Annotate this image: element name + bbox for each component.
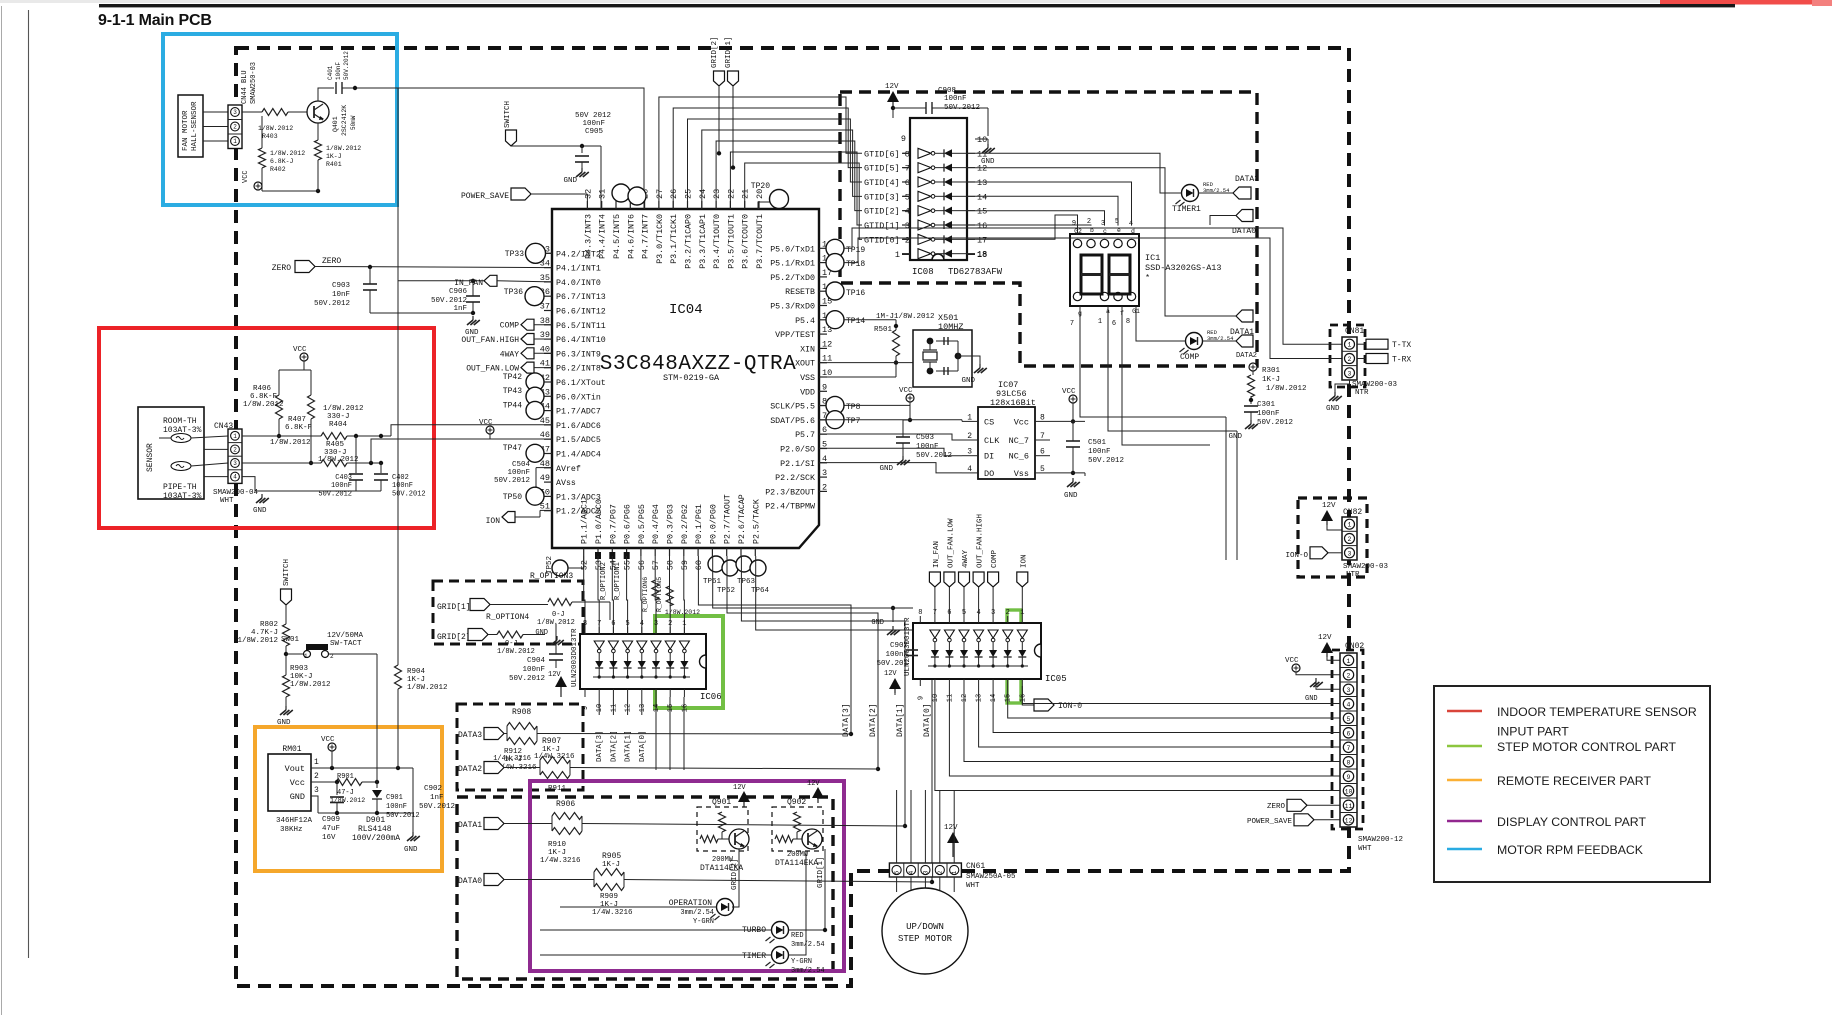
- svg-text:59: 59: [680, 560, 690, 570]
- svg-text:1K-J: 1K-J: [602, 861, 620, 869]
- svg-text:2: 2: [822, 482, 827, 492]
- svg-text:C402: C402: [392, 474, 409, 482]
- svg-text:50V 2012: 50V 2012: [575, 112, 611, 120]
- svg-text:P2.5/TACK: P2.5/TACK: [751, 499, 761, 544]
- svg-text:2SC2412K: 2SC2412K: [341, 105, 348, 136]
- svg-text:VCC: VCC: [1062, 388, 1076, 396]
- svg-text:1K-J: 1K-J: [1262, 376, 1280, 384]
- svg-text:GND: GND: [277, 719, 291, 727]
- svg-text:C902: C902: [424, 785, 442, 793]
- svg-text:DO: DO: [984, 469, 994, 479]
- svg-text:GND: GND: [563, 177, 577, 185]
- svg-text:3: 3: [822, 468, 827, 478]
- svg-text:P3.5/T1OUT1: P3.5/T1OUT1: [726, 214, 736, 269]
- svg-text:P6.4/INT10: P6.4/INT10: [556, 335, 606, 345]
- svg-text:TP47: TP47: [503, 444, 522, 453]
- svg-text:P4.7/INT7: P4.7/INT7: [641, 214, 651, 259]
- svg-text:4: 4: [1347, 701, 1351, 708]
- svg-text:VCC: VCC: [899, 387, 913, 395]
- svg-text:TP50: TP50: [503, 493, 522, 502]
- svg-text:50V.2012: 50V.2012: [1088, 457, 1124, 465]
- svg-text:R_OPTION5: R_OPTION5: [656, 577, 663, 612]
- svg-text:15: 15: [1005, 694, 1013, 702]
- svg-text:DATA[2]: DATA[2]: [610, 730, 618, 762]
- svg-text:23: 23: [712, 189, 722, 199]
- svg-text:13: 13: [639, 704, 647, 712]
- svg-text:P4.5/INT5: P4.5/INT5: [612, 214, 622, 259]
- svg-text:C501: C501: [1088, 439, 1107, 447]
- svg-text:TP19: TP19: [846, 246, 865, 255]
- svg-text:C403: C403: [335, 474, 352, 482]
- svg-text:R904: R904: [407, 668, 426, 676]
- svg-text:128x16Bit: 128x16Bit: [990, 398, 1036, 408]
- svg-text:1nF: 1nF: [453, 305, 467, 313]
- svg-text:25: 25: [684, 189, 694, 199]
- svg-text:CN44 BLU: CN44 BLU: [241, 70, 249, 104]
- svg-text:NC_6: NC_6: [1009, 452, 1029, 462]
- svg-text:12: 12: [961, 694, 969, 702]
- svg-text:TP44: TP44: [503, 401, 522, 410]
- svg-text:2: 2: [668, 620, 672, 628]
- svg-text:C909: C909: [322, 816, 340, 824]
- svg-text:9: 9: [917, 696, 925, 700]
- svg-text:16: 16: [1019, 694, 1027, 702]
- svg-text:11: 11: [946, 694, 954, 702]
- svg-text:IC04: IC04: [669, 302, 703, 318]
- svg-text:3mm/2.54: 3mm/2.54: [791, 941, 825, 949]
- svg-text:4: 4: [233, 474, 237, 481]
- svg-text:50V.2012: 50V.2012: [318, 491, 352, 499]
- svg-text:P2.3/BZOUT: P2.3/BZOUT: [765, 487, 815, 497]
- svg-text:100nF: 100nF: [1088, 448, 1111, 456]
- svg-text:3: 3: [314, 786, 319, 795]
- svg-text:P5.4: P5.4: [795, 317, 815, 326]
- svg-text:1: 1: [1348, 342, 1352, 349]
- svg-text:1/8W.2012: 1/8W.2012: [323, 405, 364, 413]
- svg-text:103AT-3%: 103AT-3%: [163, 492, 202, 501]
- svg-text:1: 1: [304, 653, 308, 660]
- svg-text:GND: GND: [253, 507, 267, 515]
- svg-text:R911: R911: [548, 785, 567, 793]
- svg-text:1: 1: [1347, 658, 1351, 665]
- svg-text:OUT_FAN.HIGH: OUT_FAN.HIGH: [977, 514, 985, 568]
- svg-text:R403: R403: [262, 133, 278, 140]
- svg-text:13: 13: [977, 178, 987, 188]
- svg-text:P0.0/PG0: P0.0/PG0: [708, 504, 718, 544]
- svg-text:GND: GND: [1305, 695, 1318, 703]
- svg-text:P4.3/INT3: P4.3/INT3: [583, 214, 593, 259]
- svg-text:1: 1: [895, 250, 900, 260]
- svg-text:AVss: AVss: [556, 479, 576, 488]
- svg-text:DISPLAY CONTROL PART: DISPLAY CONTROL PART: [1497, 815, 1646, 829]
- svg-text:24: 24: [698, 189, 708, 199]
- svg-text:1/8W.2012: 1/8W.2012: [1266, 385, 1307, 393]
- svg-text:IN_FAN: IN_FAN: [933, 541, 941, 568]
- svg-text:6.8K-F: 6.8K-F: [285, 424, 312, 432]
- svg-text:1/8W.2012: 1/8W.2012: [243, 401, 284, 409]
- svg-text:10: 10: [596, 704, 604, 712]
- svg-text:GND: GND: [961, 377, 975, 385]
- svg-text:C503: C503: [916, 434, 935, 442]
- svg-text:7: 7: [1070, 320, 1074, 328]
- svg-text:GND: GND: [1064, 492, 1078, 500]
- svg-text:52: 52: [580, 560, 590, 570]
- svg-text:GRID[2]: GRID[2]: [731, 858, 739, 890]
- svg-text:15: 15: [977, 207, 987, 217]
- svg-text:5: 5: [625, 620, 629, 628]
- svg-text:P0.3/PG3: P0.3/PG3: [666, 504, 676, 544]
- svg-text:P5.7: P5.7: [795, 431, 815, 440]
- svg-text:22: 22: [726, 189, 736, 199]
- svg-text:STEP MOTOR CONTROL PART: STEP MOTOR CONTROL PART: [1497, 740, 1677, 754]
- svg-text:60: 60: [694, 560, 704, 570]
- svg-text:Vout: Vout: [285, 764, 305, 774]
- svg-text:50V.2012: 50V.2012: [392, 491, 426, 499]
- svg-text:T-TX: T-TX: [1392, 341, 1411, 350]
- svg-text:P6.1/XTout: P6.1/XTout: [556, 378, 606, 388]
- svg-text:GRID[2]: GRID[2]: [711, 36, 719, 68]
- svg-text:1K-J: 1K-J: [326, 153, 342, 160]
- svg-text:1/8W.2012: 1/8W.2012: [326, 145, 361, 152]
- svg-text:6: 6: [1112, 320, 1116, 328]
- svg-text:100nF: 100nF: [582, 120, 605, 128]
- svg-text:2: 2: [1348, 536, 1352, 543]
- svg-text:12V: 12V: [548, 671, 561, 679]
- svg-text:9: 9: [1072, 220, 1076, 228]
- svg-text:IC05: IC05: [1045, 674, 1067, 684]
- svg-text:11: 11: [1345, 803, 1353, 810]
- svg-text:P6.0/XTin: P6.0/XTin: [556, 392, 601, 402]
- svg-text:1/8W.2012: 1/8W.2012: [270, 439, 311, 447]
- svg-text:P4.4/INT4: P4.4/INT4: [598, 214, 608, 259]
- svg-text:R_OPTION6: R_OPTION6: [642, 577, 649, 612]
- svg-text:100nF: 100nF: [386, 803, 407, 811]
- svg-text:SW-TACT: SW-TACT: [330, 640, 362, 648]
- svg-text:18: 18: [977, 250, 987, 260]
- svg-text:9: 9: [582, 706, 590, 710]
- svg-text:C905: C905: [585, 128, 604, 136]
- svg-text:4: 4: [908, 870, 915, 874]
- svg-text:1/8W.2012: 1/8W.2012: [270, 150, 305, 157]
- svg-text:11: 11: [610, 704, 618, 712]
- svg-text:12V: 12V: [944, 824, 958, 832]
- svg-text:14: 14: [653, 704, 661, 712]
- svg-text:SW01: SW01: [281, 636, 300, 644]
- svg-text:CN02: CN02: [1345, 642, 1364, 651]
- svg-text:1: 1: [233, 138, 237, 145]
- svg-text:2: 2: [937, 870, 944, 874]
- svg-text:VCC: VCC: [479, 419, 493, 427]
- svg-text:PIPE-TH: PIPE-TH: [163, 483, 197, 492]
- svg-text:GRID[1]: GRID[1]: [725, 36, 733, 68]
- svg-text:COMP: COMP: [991, 549, 999, 568]
- svg-text:P0.4/PG4: P0.4/PG4: [651, 504, 661, 544]
- svg-text:P2.7/TAOUT: P2.7/TAOUT: [723, 494, 733, 544]
- svg-text:REMOTE RECEIVER PART: REMOTE RECEIVER PART: [1497, 774, 1651, 788]
- svg-text:100nF: 100nF: [522, 666, 545, 674]
- svg-text:P6.3/INT9: P6.3/INT9: [556, 349, 601, 359]
- svg-text:R301: R301: [1262, 367, 1281, 375]
- svg-text:2: 2: [233, 446, 237, 453]
- svg-text:c: c: [1103, 228, 1107, 235]
- svg-text:1: 1: [951, 870, 958, 874]
- svg-text:IC08: IC08: [912, 267, 934, 277]
- svg-text:RM01: RM01: [282, 745, 301, 754]
- svg-text:R407: R407: [288, 416, 306, 424]
- svg-text:OUT_FAN.HIGH: OUT_FAN.HIGH: [461, 336, 519, 345]
- svg-text:R901: R901: [337, 773, 354, 781]
- svg-text:GTID[0] 2: GTID[0] 2: [864, 235, 910, 245]
- svg-text:6.8K-J: 6.8K-J: [270, 158, 294, 165]
- svg-text:POWER_SAVE: POWER_SAVE: [1247, 818, 1293, 826]
- svg-text:1K-J: 1K-J: [548, 849, 566, 857]
- svg-text:WHT: WHT: [220, 497, 234, 505]
- svg-text:DATA[1]: DATA[1]: [625, 730, 633, 762]
- svg-text:P0.7/PG7: P0.7/PG7: [608, 504, 618, 544]
- svg-text:5: 5: [1347, 716, 1351, 723]
- svg-text:55: 55: [623, 560, 633, 570]
- svg-text:6.8K-F: 6.8K-F: [250, 393, 277, 401]
- svg-text:7: 7: [597, 620, 601, 628]
- svg-text:GND: GND: [290, 792, 305, 802]
- svg-text:TIMER1: TIMER1: [1172, 205, 1201, 214]
- svg-text:P2.0/SO: P2.0/SO: [780, 445, 815, 455]
- svg-text:P1.4/ADC4: P1.4/ADC4: [556, 450, 601, 460]
- svg-text:12V: 12V: [1318, 634, 1332, 642]
- svg-text:ION: ION: [486, 517, 501, 526]
- svg-text:12: 12: [977, 164, 987, 174]
- svg-text:1nF: 1nF: [430, 794, 444, 802]
- svg-text:POWER_SAVE: POWER_SAVE: [461, 192, 509, 201]
- svg-text:TP18: TP18: [846, 260, 865, 269]
- svg-text:1/8W.2012: 1/8W.2012: [290, 681, 331, 689]
- svg-text:P0.2/PG2: P0.2/PG2: [680, 504, 690, 544]
- svg-text:P0.5/PG5: P0.5/PG5: [637, 504, 647, 544]
- svg-text:3: 3: [1348, 550, 1352, 557]
- svg-text:*: *: [1145, 273, 1150, 283]
- svg-text:58: 58: [666, 560, 676, 570]
- svg-text:1: 1: [233, 433, 237, 440]
- svg-text:R910: R910: [548, 841, 567, 849]
- svg-text:50V.201: 50V.201: [876, 660, 908, 668]
- svg-text:C904: C904: [527, 657, 546, 665]
- svg-text:GND: GND: [404, 846, 418, 854]
- svg-text:d: d: [1131, 228, 1135, 235]
- svg-text:Q902: Q902: [787, 798, 806, 807]
- svg-text:C504: C504: [512, 461, 531, 469]
- svg-text:P1.6/ADC6: P1.6/ADC6: [556, 421, 601, 431]
- svg-text:Q901: Q901: [712, 798, 731, 807]
- svg-text:TP36: TP36: [504, 288, 523, 297]
- svg-text:P3.3/T1CAP1: P3.3/T1CAP1: [698, 214, 708, 269]
- svg-text:DATA1: DATA1: [458, 821, 482, 830]
- svg-text:346HF12A: 346HF12A: [276, 817, 313, 825]
- svg-text:12V/50MA: 12V/50MA: [327, 632, 364, 640]
- svg-text:NTR: NTR: [1355, 389, 1369, 397]
- svg-text:56: 56: [637, 560, 647, 570]
- svg-text:50V.2012: 50V.2012: [494, 477, 530, 485]
- svg-text:P3.0/T1CK0: P3.0/T1CK0: [655, 214, 665, 264]
- svg-text:2: 2: [1347, 672, 1351, 679]
- svg-text:2: 2: [330, 653, 334, 660]
- svg-text:SSD-A3202GS-A13: SSD-A3202GS-A13: [1145, 263, 1222, 273]
- svg-text:47uF: 47uF: [322, 825, 340, 833]
- svg-text:TP7: TP7: [846, 417, 861, 426]
- svg-text:10: 10: [977, 135, 987, 145]
- svg-text:12: 12: [822, 339, 832, 349]
- svg-text:P3.6/TCOUT0: P3.6/TCOUT0: [741, 214, 751, 269]
- svg-text:3mm/2.54: 3mm/2.54: [791, 967, 825, 975]
- svg-text:OUT_FAN.LOW: OUT_FAN.LOW: [947, 518, 955, 568]
- svg-text:P6.6/INT12: P6.6/INT12: [556, 307, 606, 317]
- svg-text:R908: R908: [512, 708, 531, 717]
- svg-text:1: 1: [682, 620, 686, 628]
- svg-text:IC1: IC1: [1145, 253, 1160, 263]
- svg-text:9: 9: [1347, 774, 1351, 781]
- svg-text:RED: RED: [791, 932, 804, 940]
- svg-text:1/8W.2012: 1/8W.2012: [497, 648, 535, 656]
- svg-text:C901: C901: [386, 794, 403, 802]
- svg-text:INDOOR TEMPERATURE SENSOR: INDOOR TEMPERATURE SENSOR: [1497, 705, 1697, 719]
- svg-text:1/8W.2012: 1/8W.2012: [258, 125, 293, 132]
- svg-text:TD62783AFW: TD62783AFW: [948, 267, 1003, 277]
- svg-text:9: 9: [822, 382, 827, 392]
- svg-text:FAN MOTOR: FAN MOTOR: [182, 110, 190, 151]
- svg-text:C907: C907: [890, 642, 908, 650]
- svg-text:100nF: 100nF: [392, 482, 413, 490]
- svg-text:DATA[1]: DATA[1]: [896, 703, 905, 737]
- svg-text:100nF: 100nF: [335, 62, 342, 80]
- svg-text:SENSOR: SENSOR: [146, 443, 155, 472]
- svg-text:1K-J: 1K-J: [407, 676, 425, 684]
- svg-text:TP20: TP20: [751, 182, 770, 191]
- svg-text:TP8: TP8: [846, 403, 861, 412]
- svg-text:ZERO: ZERO: [272, 264, 291, 273]
- svg-text:CN81: CN81: [1345, 327, 1364, 336]
- svg-text:R907: R907: [542, 737, 561, 746]
- svg-text:COMP: COMP: [500, 322, 519, 331]
- svg-text:VCC: VCC: [242, 170, 250, 183]
- svg-text:DATA2: DATA2: [458, 765, 482, 774]
- svg-text:P3.7/TCOUT1: P3.7/TCOUT1: [755, 214, 765, 269]
- svg-text:100nF: 100nF: [916, 443, 939, 451]
- svg-text:WHT: WHT: [966, 882, 980, 890]
- svg-text:ZERO: ZERO: [1267, 803, 1286, 811]
- svg-text:R401: R401: [326, 161, 342, 168]
- svg-text:9-1-1 Main PCB: 9-1-1 Main PCB: [98, 12, 212, 29]
- svg-text:VDD: VDD: [800, 388, 815, 397]
- svg-text:GND: GND: [871, 619, 884, 627]
- svg-text:ION: ION: [1020, 554, 1028, 568]
- svg-text:12V: 12V: [1322, 502, 1336, 510]
- svg-text:100V/200mA: 100V/200mA: [352, 834, 400, 843]
- svg-text:DATA[3]: DATA[3]: [842, 703, 851, 737]
- svg-text:P2.2/SCK: P2.2/SCK: [775, 473, 815, 483]
- svg-text:12V: 12V: [884, 670, 897, 678]
- svg-text:DTA114EKA: DTA114EKA: [775, 859, 818, 868]
- svg-text:49: 49: [540, 473, 550, 483]
- svg-text:10: 10: [932, 694, 940, 702]
- svg-text:P2.6/TACAP: P2.6/TACAP: [737, 494, 747, 544]
- svg-text:8: 8: [1126, 318, 1130, 326]
- svg-text:100nF: 100nF: [1257, 410, 1280, 418]
- svg-text:12V: 12V: [885, 83, 899, 91]
- svg-text:T-RX: T-RX: [1392, 356, 1411, 365]
- svg-text:ZERO: ZERO: [322, 257, 341, 266]
- svg-text:1/8W.2012: 1/8W.2012: [237, 637, 278, 645]
- svg-text:XOUT: XOUT: [795, 360, 815, 369]
- svg-text:R_OPTION4: R_OPTION4: [486, 613, 529, 622]
- svg-text:R_OPTION3: R_OPTION3: [530, 572, 573, 581]
- svg-text:GTID[6] 8: GTID[6] 8: [864, 149, 910, 159]
- svg-text:R903: R903: [290, 665, 309, 673]
- svg-text:14: 14: [990, 694, 998, 702]
- svg-text:14: 14: [977, 192, 987, 202]
- svg-text:SMAW250-03: SMAW250-03: [250, 62, 258, 104]
- svg-text:5: 5: [894, 870, 901, 874]
- svg-text:Vcc: Vcc: [290, 778, 305, 788]
- svg-text:C906: C906: [449, 288, 468, 296]
- svg-text:6: 6: [1347, 730, 1351, 737]
- svg-text:NC_7: NC_7: [1009, 436, 1029, 446]
- svg-text:17: 17: [977, 235, 987, 245]
- svg-text:P6.5/INT11: P6.5/INT11: [556, 321, 606, 331]
- svg-text:GTID[1] 3: GTID[1] 3: [864, 221, 910, 231]
- svg-text:R402: R402: [270, 166, 286, 173]
- svg-text:4.7K-J: 4.7K-J: [251, 629, 278, 637]
- svg-text:P2.4/TBPMW: P2.4/TBPMW: [765, 502, 815, 512]
- svg-text:SWITCH: SWITCH: [504, 101, 512, 128]
- svg-text:P1.5/ADC5: P1.5/ADC5: [556, 435, 601, 445]
- svg-text:16: 16: [681, 704, 689, 712]
- svg-text:8: 8: [918, 609, 922, 617]
- svg-text:10K-J: 10K-J: [290, 673, 313, 681]
- svg-text:DI: DI: [984, 452, 994, 462]
- svg-text:GTID[4] 6: GTID[4] 6: [864, 178, 910, 188]
- svg-text:SMAW200-12: SMAW200-12: [1358, 836, 1403, 844]
- svg-text:GRID[2]: GRID[2]: [437, 633, 471, 642]
- svg-text:AVref: AVref: [556, 464, 581, 474]
- svg-text:27: 27: [655, 189, 665, 199]
- svg-text:DATA[2]: DATA[2]: [869, 703, 878, 737]
- svg-text:GND: GND: [1228, 433, 1242, 441]
- svg-text:1/4W.3216: 1/4W.3216: [540, 857, 581, 865]
- svg-text:VCC: VCC: [1285, 657, 1299, 665]
- svg-text:VPP/TEST: VPP/TEST: [775, 330, 815, 340]
- svg-text:DATA3: DATA3: [458, 731, 482, 740]
- svg-text:XIN: XIN: [800, 345, 815, 354]
- svg-text:8: 8: [583, 620, 587, 628]
- svg-text:100nF: 100nF: [944, 95, 967, 103]
- svg-text:P2.1/SI: P2.1/SI: [780, 459, 815, 469]
- svg-text:TP33: TP33: [505, 250, 524, 259]
- svg-text:TP16: TP16: [846, 289, 865, 298]
- svg-text:4: 4: [640, 620, 644, 628]
- svg-text:1: 1: [1348, 522, 1352, 529]
- svg-text:3: 3: [233, 109, 237, 116]
- svg-text:P5.2/TxD0: P5.2/TxD0: [770, 273, 815, 283]
- svg-text:G2: G2: [1074, 228, 1082, 235]
- svg-text:1/4W.3216: 1/4W.3216: [493, 755, 531, 763]
- svg-text:P0.6/PG6: P0.6/PG6: [623, 504, 633, 544]
- svg-text:Vss: Vss: [1014, 469, 1029, 479]
- svg-text:16V: 16V: [322, 834, 336, 842]
- svg-text:C903: C903: [332, 282, 351, 290]
- svg-text:Vcc: Vcc: [1014, 417, 1029, 427]
- svg-text:2: 2: [1006, 609, 1010, 617]
- svg-text:CN82: CN82: [1343, 508, 1362, 517]
- svg-text:VCC: VCC: [293, 346, 307, 354]
